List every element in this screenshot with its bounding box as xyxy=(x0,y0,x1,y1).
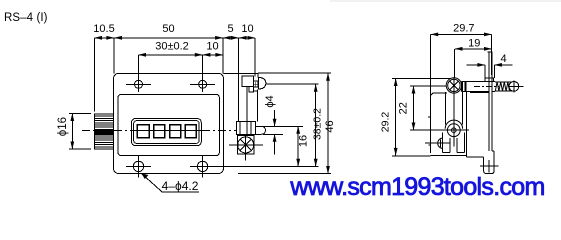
svg-text:10: 10 xyxy=(241,23,253,35)
svg-text:22: 22 xyxy=(397,102,409,114)
digit box 4 xyxy=(185,125,196,138)
dim 16 xyxy=(297,126,299,166)
shaft ticks on body left edge xyxy=(428,116,431,118)
upper block xyxy=(242,76,254,87)
extension line hole left xyxy=(138,55,140,92)
svg-text:29.2: 29.2 xyxy=(380,112,392,133)
hole top-right xyxy=(190,80,215,88)
hole top-left xyxy=(126,80,151,88)
faint top border remnant xyxy=(330,0,561,2)
svg-text:4: 4 xyxy=(501,53,507,65)
ratchet box xyxy=(237,136,254,155)
plate hole cross xyxy=(480,165,499,167)
stroke pin xyxy=(255,126,265,134)
lever notch xyxy=(249,86,253,92)
29.7 right extension xyxy=(491,34,493,75)
dim 38±0.2 xyxy=(315,84,317,166)
lever bar left xyxy=(238,38,240,122)
svg-text:16: 16 xyxy=(297,135,309,147)
pin extension lines xyxy=(263,125,303,127)
centerline xyxy=(82,130,131,132)
svg-text:29.7: 29.7 xyxy=(453,23,474,35)
hole bottom-left xyxy=(126,155,151,178)
display window xyxy=(132,119,202,146)
svg-text:38±0.2: 38±0.2 xyxy=(311,108,323,140)
extension line hole right xyxy=(202,55,204,92)
hole bottom-right xyxy=(190,155,215,178)
svg-text:30±0.2: 30±0.2 xyxy=(155,41,189,53)
body side bottom edge xyxy=(431,91,467,155)
body side top-left corner xyxy=(431,93,447,96)
dim 4 xyxy=(466,64,485,66)
dim 22 xyxy=(413,86,415,130)
digit box 1 xyxy=(137,125,149,138)
svg-text:ϕ4: ϕ4 xyxy=(264,95,276,107)
svg-text:10.5: 10.5 xyxy=(93,23,114,35)
knob (knurled) xyxy=(95,114,114,149)
collar xyxy=(461,82,463,92)
extension line x=222.9 xyxy=(222,38,224,74)
dimension line row2 (30±0.2 / 10) xyxy=(139,54,223,56)
dimension line row1 (10.5 / 50 / 5 / 10) xyxy=(95,37,256,39)
lower block xyxy=(237,122,256,135)
ratchet wheel xyxy=(238,137,254,153)
svg-text:10: 10 xyxy=(206,41,218,53)
dim 46 xyxy=(327,73,329,173)
double arrowheads at shared extension lines xyxy=(106,36,122,40)
leader 4-dia4.2 xyxy=(141,173,199,193)
digit box 3 xyxy=(170,125,181,138)
svg-text:4–ϕ4.2: 4–ϕ4.2 xyxy=(162,179,199,193)
svg-text:46: 46 xyxy=(324,120,336,132)
svg-text:ϕ16: ϕ16 xyxy=(57,117,69,136)
29.7 left extension / body left edge xyxy=(430,34,432,152)
ext y=173.5 xyxy=(238,173,331,175)
extension line x=255 xyxy=(254,38,256,77)
dia4 dimension xyxy=(264,95,276,154)
dim 19 xyxy=(455,48,492,50)
spring end cap xyxy=(509,82,519,92)
lever bar mid xyxy=(246,87,248,122)
roof line xyxy=(224,73,258,75)
reset button xyxy=(259,78,266,89)
digit box 2 xyxy=(154,125,165,138)
counter body xyxy=(118,94,219,155)
lever bar right xyxy=(256,90,258,122)
lower pin circle xyxy=(447,124,460,137)
dim 29.7 xyxy=(431,33,492,35)
lever arm xyxy=(445,92,447,125)
svg-text:5: 5 xyxy=(227,23,233,35)
mounting plate xyxy=(114,73,224,173)
svg-text:19: 19 xyxy=(468,38,480,50)
dia16 dimension xyxy=(57,114,91,150)
svg-text:www.scm1993tools.com: www.scm1993tools.com xyxy=(289,173,544,201)
dim 29.2 xyxy=(395,79,397,156)
rod xyxy=(461,81,488,83)
pivot circle xyxy=(446,78,461,93)
ext y=73.2 xyxy=(258,72,331,74)
stem xyxy=(254,81,258,87)
extension line x=114.2 xyxy=(113,38,115,74)
pawl bump xyxy=(485,78,493,82)
svg-text:RS–4 (I): RS–4 (I) xyxy=(4,12,48,24)
ext y=166.3 xyxy=(209,165,319,167)
side plate xyxy=(488,52,490,151)
side pin bulge xyxy=(438,138,443,148)
svg-text:50: 50 xyxy=(162,23,174,35)
spring xyxy=(495,81,512,83)
extension line x=94.5 xyxy=(94,38,96,112)
ext line y=84 to 38 dim xyxy=(266,83,319,85)
